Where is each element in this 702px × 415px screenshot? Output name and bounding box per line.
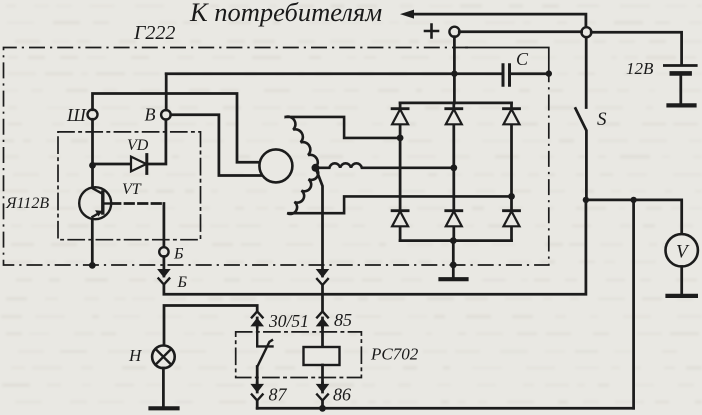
wire contact to 87	[256, 367, 259, 384]
wire В circle down to VD cathode	[149, 120, 166, 164]
wire emitter to case	[91, 219, 94, 265]
label +	[425, 25, 438, 38]
rectifier column 2	[452, 103, 455, 241]
wire rectifier to ground	[452, 241, 455, 279]
svg-text:86: 86	[333, 385, 351, 405]
battery 12V	[664, 64, 696, 67]
node VD anode tap	[89, 162, 96, 169]
node AC phase C	[450, 164, 457, 171]
svg-text:К потребителям: К потребителям	[189, 0, 382, 27]
arrow star exit	[316, 269, 330, 278]
lamp H	[152, 346, 175, 369]
svg-text:VT: VT	[122, 181, 142, 198]
svg-text:12В: 12В	[626, 59, 654, 78]
relay contact blade	[257, 326, 272, 367]
node switch bottom	[583, 197, 589, 203]
stator star point	[312, 164, 320, 172]
svg-text:30/51: 30/51	[268, 311, 309, 331]
wire + riser down to rectifier	[453, 37, 456, 103]
node bottom bus	[450, 237, 457, 244]
node voltmeter/relay branch	[630, 197, 636, 203]
svg-text:Н: Н	[128, 346, 143, 365]
rectifier ground	[441, 277, 467, 281]
arrow to consumers	[412, 14, 586, 27]
wire Б line to switch	[164, 200, 586, 294]
wire coil to 86	[321, 365, 324, 383]
wire VD anode	[93, 163, 132, 166]
regulator box Я112В (dash-dot)	[58, 132, 201, 240]
svg-text:Б: Б	[173, 246, 184, 263]
wire star point down to 85	[316, 168, 323, 276]
wire node to voltmeter branch	[586, 200, 682, 234]
wire relay return riser	[632, 200, 635, 408]
voltmeter V	[666, 234, 698, 266]
node AC phase A	[397, 135, 404, 142]
voltmeter ground	[668, 294, 696, 298]
rotor field winding	[259, 149, 292, 182]
svg-text:Б: Б	[177, 274, 188, 291]
terminal В	[161, 110, 171, 120]
chevron Б exit	[159, 279, 170, 285]
node: capacitor to case junction	[546, 70, 552, 76]
wire В riser	[165, 74, 168, 110]
stator winding phase A (upper)	[286, 117, 400, 168]
battery ground	[669, 103, 695, 107]
stator winding phase C (middle)	[316, 163, 454, 167]
chevron 87	[252, 395, 263, 401]
diode D2	[446, 109, 462, 125]
chevron 85	[317, 311, 328, 317]
wire relay bottom line	[257, 407, 633, 410]
generator case box Г222 (dash-dot)	[4, 48, 549, 266]
arrow 30/51 (up)	[250, 318, 264, 327]
chevron star exit	[317, 279, 328, 285]
svg-text:С: С	[516, 49, 529, 69]
rectifier column 3	[510, 103, 513, 241]
svg-text:Я112В: Я112В	[5, 195, 49, 212]
wire Ш riser down through regulator	[91, 119, 94, 187]
wire base dashed to Б	[112, 202, 163, 205]
chevron 30/51	[252, 311, 263, 317]
rectifier column 1	[399, 103, 402, 241]
svg-text:В: В	[145, 105, 156, 125]
wire lamp branch to 30/51	[164, 306, 257, 345]
wire Б exit arrow	[163, 257, 166, 277]
wire Ш rail to rotor upper brush	[93, 94, 260, 163]
terminal circle right (switch tap)	[581, 27, 591, 37]
rectifier bottom bus	[400, 239, 511, 242]
svg-text:S: S	[597, 109, 607, 130]
lamp ground	[151, 406, 178, 410]
relay coil	[304, 347, 340, 365]
terminal Ш	[88, 110, 98, 120]
svg-text:VD: VD	[127, 137, 149, 154]
stator winding phase B (lower)	[287, 168, 511, 214]
relay box РС702 (dash-dot)	[236, 332, 362, 378]
capacitor C	[503, 65, 510, 86]
terminal + circle	[449, 27, 459, 37]
node + riser / capacitor rail	[451, 71, 457, 77]
switch S	[585, 37, 588, 107]
capacitor rail wire	[166, 72, 549, 75]
arrow 87 (down)	[250, 384, 264, 393]
svg-text:РС702: РС702	[370, 345, 419, 364]
terminal Б	[159, 247, 168, 256]
arrow 86 (down)	[316, 384, 330, 393]
node case bottom rectifier	[450, 262, 457, 269]
wire lamp to ground	[162, 368, 165, 408]
wire + rail to battery	[459, 32, 681, 64]
diode D3	[504, 109, 520, 125]
chevron 86	[317, 395, 328, 401]
svg-text:Ш: Ш	[66, 105, 87, 125]
rectifier top bus	[400, 102, 511, 105]
node AC phase B	[508, 193, 515, 200]
svg-text:87: 87	[269, 385, 288, 405]
node emitter case	[89, 262, 96, 269]
diode VD	[131, 157, 146, 172]
svg-text:Г222: Г222	[133, 22, 175, 44]
node 86 bottom	[319, 405, 326, 412]
diode D6	[504, 211, 520, 227]
diode D5	[446, 211, 462, 227]
diode D4	[392, 211, 408, 227]
diode D1	[392, 109, 408, 125]
wire В to rotor lower brush	[171, 115, 263, 176]
svg-text:85: 85	[334, 310, 352, 330]
arrow 85 (up)	[316, 318, 330, 327]
transistor VT	[79, 187, 111, 219]
